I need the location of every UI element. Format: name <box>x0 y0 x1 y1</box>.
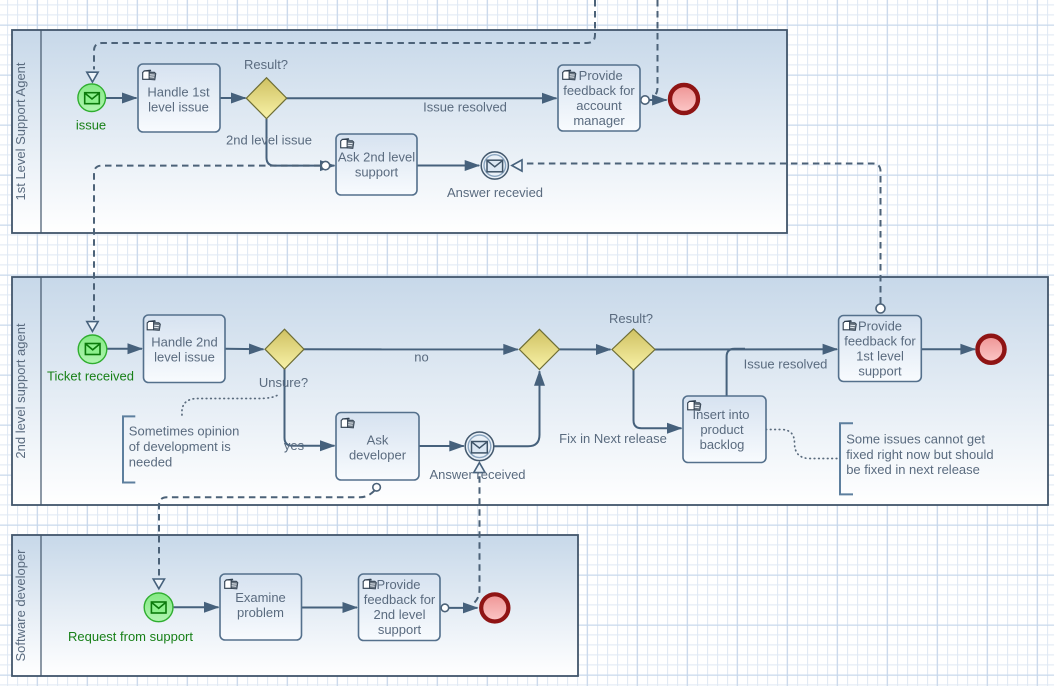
wire: Result? 2 -> Provide feedback for 1st level support (Issue resolved) <box>655 348 837 350</box>
gateway: Unsure? <box>265 329 304 369</box>
wire: Unsure? -> Ask developer (yes) <box>285 369 335 446</box>
svg-text:of development is: of development is <box>129 439 231 454</box>
task: Handle 2nd level issue <box>144 315 226 383</box>
svg-text:Request from support: Request from support <box>68 629 193 644</box>
svg-text:Answer recevied: Answer recevied <box>447 185 543 200</box>
message source circle at Ask developer bottom <box>373 484 381 492</box>
message source circle at Provide feedback for 2nd level support <box>441 604 449 612</box>
message flow: Provide feedback for 1st level support -> Answer recevied <box>523 164 881 304</box>
task: Provide feedback for 1st level support <box>839 316 922 382</box>
gateway: merge <box>519 329 559 369</box>
svg-text:Handle 2nd: Handle 2nd <box>151 335 218 350</box>
message flow: Ask developer -> Request from support <box>159 491 375 578</box>
wire: Result? -> Ask 2nd level support (2nd level issue) <box>267 119 335 166</box>
pool: 1st Level Support Agent <box>12 30 787 233</box>
start event: issue <box>78 84 106 112</box>
svg-text:Sometimes opinion: Sometimes opinion <box>129 424 240 439</box>
svg-text:Some issues cannot get: Some issues cannot get <box>846 431 985 446</box>
end event: pool 3 <box>481 594 508 621</box>
pool: 2nd level support agent <box>12 277 1048 505</box>
wire: Handle 1st level issue -> Result? gateway <box>220 97 246 99</box>
wire: Answer received -> merge gateway <box>494 371 540 446</box>
svg-text:fixed right now but should: fixed right now but should <box>846 447 993 462</box>
message flow: vertical at end event 1 going off-screen top <box>653 0 658 98</box>
svg-text:yes: yes <box>284 438 305 453</box>
annotation: Sometimes opinion of development is needed <box>123 416 239 482</box>
message flow: Ask 2nd level support -> Ticket received <box>94 166 321 320</box>
svg-text:manager: manager <box>573 113 625 128</box>
svg-text:level issue: level issue <box>154 350 215 365</box>
message source circle at Ask 2nd level support <box>321 161 329 169</box>
task: Insert into product backlog <box>683 396 766 463</box>
svg-text:Issue resolved: Issue resolved <box>744 357 828 372</box>
wire: Handle 2nd level issue -> Unsure? gateway <box>225 348 264 351</box>
wire: Examine problem -> Provide feedback for 2nd level support <box>302 607 358 609</box>
svg-text:2nd level issue: 2nd level issue <box>226 133 312 148</box>
open arrowhead into Answer recevied (points left) <box>512 160 522 171</box>
svg-text:2nd level: 2nd level <box>373 607 425 622</box>
svg-text:developer: developer <box>349 448 407 463</box>
annotation: Some issues cannot get fixed right now <box>840 423 994 494</box>
task: Provide feedback for 2nd level support <box>359 574 441 641</box>
wire: Unsure? -> merge gateway (no) <box>304 348 518 350</box>
intermediate event: Answer recevied (pool 1) <box>481 152 508 179</box>
wire: Result? 2 -> Insert into product backlog (Fix in Next release) <box>634 370 682 428</box>
wire: issue -> Handle 1st level issue <box>106 97 137 99</box>
svg-text:Provide: Provide <box>579 68 623 83</box>
svg-text:Provide: Provide <box>376 577 420 592</box>
wire: Request from support -> Examine problem <box>174 606 219 608</box>
svg-text:Result?: Result? <box>609 311 653 326</box>
message source circle at Provide feedback for 1st level support <box>876 304 885 313</box>
message flow: Provide feedback for 2nd level support -> Answer received <box>475 474 480 603</box>
message source circle at Provide feedback for account manager <box>641 96 649 104</box>
svg-text:Issue resolved: Issue resolved <box>423 100 507 115</box>
svg-text:level issue: level issue <box>148 100 209 115</box>
task: Handle 1st level issue <box>138 64 220 132</box>
svg-text:needed: needed <box>129 454 172 469</box>
svg-text:feedback for: feedback for <box>563 83 635 98</box>
open arrowhead into issue event <box>87 72 98 82</box>
svg-text:Ticket received: Ticket received <box>47 369 134 384</box>
intermediate event: Answer received (pool 2) <box>465 432 494 461</box>
end event: pool 2 <box>978 336 1005 363</box>
svg-text:1st level: 1st level <box>856 349 904 364</box>
wire: Provide feedback for account manager -> end event <box>640 99 667 101</box>
svg-text:Handle 1st: Handle 1st <box>147 85 210 100</box>
message flow: top left into issue event <box>94 0 595 70</box>
svg-text:Fix in Next release: Fix in Next release <box>559 431 667 446</box>
wire: Provide feedback for 1st level support -> end event 2 <box>921 348 975 350</box>
svg-text:Result?: Result? <box>244 57 288 72</box>
wire: Ask 2nd level support -> Answer recevied <box>417 165 479 167</box>
task: Ask 2nd level support <box>336 134 417 195</box>
task: Ask developer <box>336 413 419 481</box>
start event: Ticket received <box>78 335 107 364</box>
svg-text:feedback for: feedback for <box>364 592 436 607</box>
svg-text:Software developer: Software developer <box>13 549 28 662</box>
association: annotation 1 -> Unsure? <box>182 396 277 416</box>
task: Examine problem <box>220 574 302 640</box>
svg-text:account: account <box>576 98 622 113</box>
svg-text:support: support <box>858 364 902 379</box>
end event: pool 1 <box>670 85 698 113</box>
svg-text:feedback for: feedback for <box>844 334 916 349</box>
svg-text:product: product <box>700 422 744 437</box>
svg-text:Unsure?: Unsure? <box>259 375 308 390</box>
open arrowhead into Request from support <box>153 579 164 589</box>
svg-text:Answer received: Answer received <box>429 467 525 482</box>
svg-text:problem: problem <box>237 605 284 620</box>
svg-text:no: no <box>414 350 428 365</box>
wire: merge gateway -> Result? gateway 2 <box>560 348 611 350</box>
task: Provide feedback for account manager <box>558 65 640 131</box>
open arrowhead into Ticket received <box>87 322 98 332</box>
svg-text:Provide: Provide <box>858 319 902 334</box>
svg-text:Examine: Examine <box>235 590 286 605</box>
svg-text:1st Level Support Agent: 1st Level Support Agent <box>13 62 28 200</box>
wire: Result? -> Provide feedback for account manager (Issue resolved) <box>287 97 557 99</box>
svg-text:backlog: backlog <box>700 437 745 452</box>
gateway: Result? (pool 1) <box>246 78 286 119</box>
svg-text:support: support <box>378 622 422 637</box>
svg-text:issue: issue <box>76 118 106 133</box>
pool: Software developer <box>12 535 578 676</box>
start event: Request from support <box>144 593 173 622</box>
wire: Ask developer -> Answer received <box>419 445 464 447</box>
wire: Ticket received -> Handle 2nd level issue <box>107 348 142 350</box>
svg-text:2nd level support agent: 2nd level support agent <box>13 323 28 459</box>
svg-text:Insert into: Insert into <box>692 407 749 422</box>
gateway: Result? (pool 2) <box>612 329 655 370</box>
svg-text:be fixed in next release: be fixed in next release <box>846 462 980 477</box>
association: Insert into product backlog -> annotation 2 <box>766 430 840 459</box>
wire: Insert into product backlog -> join into feedback flow <box>727 349 745 396</box>
svg-text:Ask 2nd level: Ask 2nd level <box>338 150 415 165</box>
svg-text:support: support <box>355 165 399 180</box>
wire: Provide feedback for 2nd level support -> end event 3 <box>449 607 478 609</box>
svg-text:Ask: Ask <box>367 433 389 448</box>
open arrowhead into Answer received 2 (points up) <box>474 463 485 473</box>
